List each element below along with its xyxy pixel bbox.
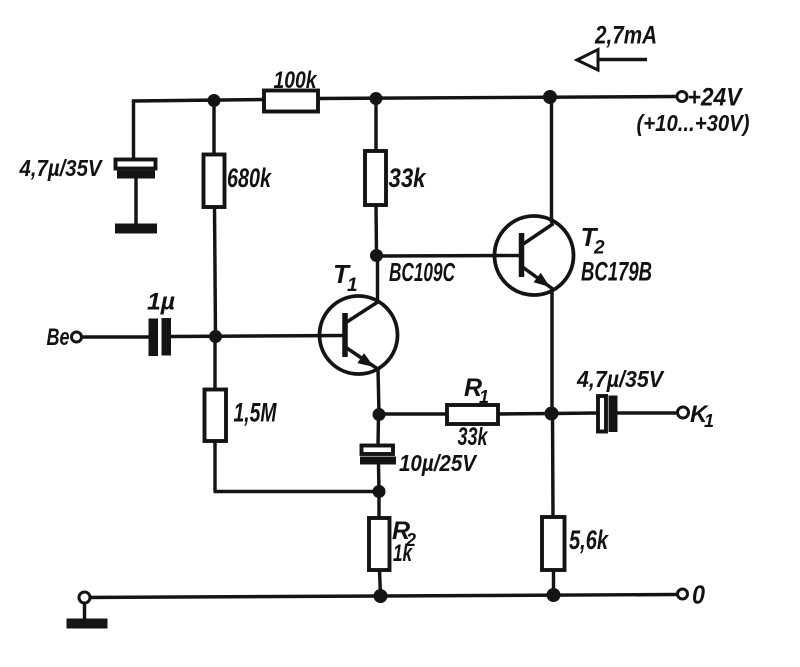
svg-text:1,5M: 1,5M xyxy=(234,398,277,428)
junction node B (T1 base) xyxy=(209,330,222,343)
wire 33k bottom to node C xyxy=(374,205,378,256)
wire R2 to rail xyxy=(380,570,381,596)
junction rail/5,6k xyxy=(547,588,561,602)
wire rail to C1 xyxy=(132,100,135,160)
junction rail/T2 xyxy=(543,90,557,104)
junction rail/R2 xyxy=(374,589,388,603)
svg-text:680k: 680k xyxy=(227,163,272,193)
svg-text:100k: 100k xyxy=(274,67,318,94)
svg-text:5,6k: 5,6k xyxy=(569,525,609,555)
svg-text:BC109C: BC109C xyxy=(389,257,456,287)
wire C1 to ground bar xyxy=(134,179,137,224)
wire top rail right segment xyxy=(318,97,677,99)
junction node C (T1 collector / T2 base) xyxy=(370,249,383,262)
svg-text:0: 0 xyxy=(692,580,705,610)
capacitor C2 plate xyxy=(162,318,172,356)
wire R1 to node D xyxy=(498,412,552,416)
capacitor C3 plate - xyxy=(360,457,396,465)
wire C3 to node F xyxy=(377,465,381,492)
terminal Be xyxy=(72,332,82,342)
terminal +24V xyxy=(677,92,687,102)
resistor R1 xyxy=(447,405,498,424)
junction node D (T2 collector) xyxy=(545,407,559,421)
wire C2 to T1 base xyxy=(171,336,343,337)
capacitor C3 10u/25V plate + xyxy=(362,446,394,455)
bottom rail xyxy=(85,595,678,598)
svg-text:10µ/25V: 10µ/25V xyxy=(399,450,477,476)
svg-text:(+10...+30V): (+10...+30V) xyxy=(637,110,750,136)
wire C4 to K1 xyxy=(618,411,678,414)
svg-text:Be: Be xyxy=(47,324,70,351)
terminal K1 xyxy=(678,407,689,418)
wire 5,6k to rail xyxy=(552,570,555,595)
terminal 0 xyxy=(678,589,688,599)
wire rail to T2 xyxy=(550,97,553,223)
resistor 33k xyxy=(365,151,386,205)
capacitor C4 plate - xyxy=(609,396,618,433)
transistor T1 BC109C xyxy=(320,296,398,374)
svg-text:4,7µ/35V: 4,7µ/35V xyxy=(19,155,103,181)
label R2 xyxy=(392,517,416,550)
svg-text:1k: 1k xyxy=(393,540,413,567)
resistor R2 xyxy=(369,518,390,570)
wire node C to T2 base xyxy=(377,254,520,258)
junction rail/680k xyxy=(208,94,221,107)
label T2 xyxy=(581,222,606,259)
svg-text:+24V: +24V xyxy=(688,84,744,112)
wire T2 to node D xyxy=(550,290,553,414)
svg-text:2,7mA: 2,7mA xyxy=(594,22,657,50)
svg-text:33k: 33k xyxy=(458,423,489,451)
label R1 xyxy=(464,374,489,407)
ground symbol (bottom left) xyxy=(67,619,108,629)
svg-text:1µ: 1µ xyxy=(147,289,175,316)
wire 1,5M bottom to corner xyxy=(213,441,216,492)
wire node E to R1 xyxy=(379,412,447,415)
svg-text:1: 1 xyxy=(479,387,489,407)
terminal ground left xyxy=(79,592,90,603)
resistor 100k xyxy=(264,91,318,112)
junction node F xyxy=(373,485,386,498)
svg-text:2: 2 xyxy=(593,238,605,259)
wire T1 emitter to node E xyxy=(378,369,379,414)
wire top rail left segment xyxy=(132,100,264,102)
transistor T2 BC179B xyxy=(495,216,574,295)
junction rail/33k xyxy=(370,92,383,105)
wire 33k to node C xyxy=(374,99,377,152)
wire node E to C3 xyxy=(376,415,380,446)
capacitor C1 4,7u/35V plate + xyxy=(116,160,156,169)
svg-text:1: 1 xyxy=(347,275,358,296)
label T1 xyxy=(333,259,358,296)
wire terminal to ground bar xyxy=(83,603,86,620)
wire node D to 5,6k xyxy=(551,414,555,518)
wire node F to R2 xyxy=(377,492,380,519)
resistor 1,5M xyxy=(205,390,227,442)
resistor 680k xyxy=(204,155,225,208)
label K1 xyxy=(690,401,714,431)
junction node E (T1 emitter) xyxy=(373,408,386,421)
wire corner to node F xyxy=(214,490,380,493)
wire rail junction to 680k xyxy=(212,101,215,155)
wire node B to 1,5M xyxy=(213,337,216,390)
current arrow 2,7mA xyxy=(577,50,647,71)
svg-text:4,7µ/35V: 4,7µ/35V xyxy=(576,366,664,392)
capacitor C4 4,7u/35V plate + xyxy=(598,396,606,432)
resistor 5,6k xyxy=(542,517,565,570)
svg-text:BC179B: BC179B xyxy=(581,257,652,287)
wire node D to C4 xyxy=(552,411,599,415)
wire Be to C2 xyxy=(82,335,149,338)
wire T1 collector to node C xyxy=(376,256,379,303)
ground (below C1) xyxy=(115,224,157,234)
svg-text:1: 1 xyxy=(704,411,714,431)
svg-text:33k: 33k xyxy=(389,163,428,193)
capacitor C1 plate - xyxy=(117,171,155,179)
wire 680k to node B xyxy=(215,207,216,337)
capacitor C2 1u plate xyxy=(149,319,159,357)
